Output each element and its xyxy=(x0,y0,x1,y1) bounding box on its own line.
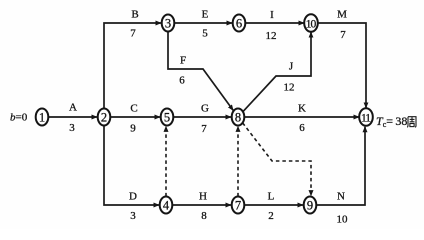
svg-text:7: 7 xyxy=(340,29,346,41)
svg-text:G: G xyxy=(201,103,209,115)
svg-text:A: A xyxy=(69,102,77,114)
svg-text:L: L xyxy=(268,191,275,203)
svg-text:N: N xyxy=(337,191,345,203)
svg-text:Tc=38: Tc=38 xyxy=(376,114,407,129)
svg-text:b=0: b=0 xyxy=(10,112,28,124)
svg-text:5: 5 xyxy=(202,28,208,40)
svg-text:3: 3 xyxy=(69,122,75,134)
svg-text:1: 1 xyxy=(39,110,45,124)
svg-text:7: 7 xyxy=(130,27,136,39)
svg-text:D: D xyxy=(129,191,137,203)
svg-text:9: 9 xyxy=(307,198,313,212)
svg-text:6: 6 xyxy=(236,16,242,30)
svg-text:H: H xyxy=(199,190,207,202)
svg-text:9: 9 xyxy=(130,123,136,135)
svg-text:8: 8 xyxy=(235,110,241,124)
svg-text:8: 8 xyxy=(201,210,207,222)
svg-text:6: 6 xyxy=(179,75,185,87)
svg-text:I: I xyxy=(270,9,274,21)
svg-text:3: 3 xyxy=(130,210,136,222)
svg-text:10: 10 xyxy=(337,214,349,226)
svg-text:B: B xyxy=(131,8,138,20)
svg-text:K: K xyxy=(298,103,306,115)
svg-text:4: 4 xyxy=(163,198,170,212)
svg-text:5: 5 xyxy=(164,110,170,124)
svg-text:6: 6 xyxy=(299,122,305,134)
svg-text:C: C xyxy=(130,103,137,115)
svg-text:2: 2 xyxy=(101,110,107,124)
svg-text:11: 11 xyxy=(361,112,371,124)
svg-text:F: F xyxy=(180,55,186,67)
svg-text:12: 12 xyxy=(284,82,295,94)
svg-text:M: M xyxy=(337,8,347,20)
svg-text:10: 10 xyxy=(306,18,317,30)
svg-text:2: 2 xyxy=(268,210,274,222)
svg-text:7: 7 xyxy=(201,123,207,135)
svg-text:J: J xyxy=(289,61,294,73)
svg-text:7: 7 xyxy=(235,198,241,212)
svg-text:3: 3 xyxy=(165,16,171,30)
svg-text:12: 12 xyxy=(266,30,277,42)
svg-text:E: E xyxy=(202,9,209,21)
